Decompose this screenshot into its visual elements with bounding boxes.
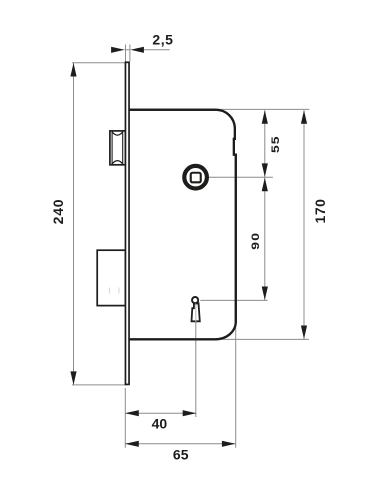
svg-text:65: 65: [173, 447, 189, 463]
svg-text:90: 90: [249, 232, 261, 250]
svg-text:2,5: 2,5: [152, 32, 173, 48]
svg-text:55: 55: [269, 135, 281, 153]
svg-text:40: 40: [152, 416, 168, 432]
svg-text:170: 170: [312, 198, 328, 223]
svg-text:240: 240: [50, 199, 66, 225]
